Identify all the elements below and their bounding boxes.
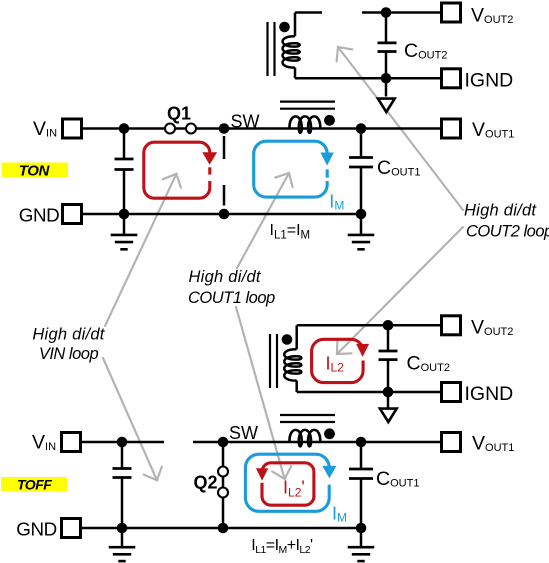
svg-text:SW: SW: [231, 112, 260, 132]
svg-text:COUT2 loop: COUT2 loop: [466, 223, 549, 241]
svg-text:VIN loop: VIN loop: [39, 345, 99, 363]
svg-text:TON: TON: [19, 162, 51, 179]
svg-text:IL1=IM+IL2': IL1=IM+IL2': [251, 537, 313, 556]
svg-text:SW: SW: [229, 423, 258, 443]
svg-text:VOUT1: VOUT1: [472, 433, 514, 455]
svg-text:GND: GND: [16, 519, 57, 540]
svg-text:High di/dt: High di/dt: [189, 268, 262, 286]
svg-text:VOUT2: VOUT2: [471, 5, 513, 27]
svg-text:VIN: VIN: [33, 118, 57, 140]
svg-text:High di/dt: High di/dt: [464, 201, 537, 219]
svg-text:IM: IM: [332, 503, 347, 524]
svg-text:VOUT2: VOUT2: [471, 317, 513, 339]
svg-text:GND: GND: [19, 205, 60, 226]
svg-text:IGND: IGND: [465, 383, 514, 405]
svg-text:Q2: Q2: [194, 473, 218, 493]
svg-text:Q1: Q1: [167, 104, 191, 124]
svg-text:VIN: VIN: [32, 432, 56, 454]
svg-text:IL2': IL2': [283, 478, 305, 500]
svg-text:IL2: IL2: [326, 354, 345, 375]
svg-text:IL1=IM: IL1=IM: [270, 222, 311, 241]
svg-text:VOUT1: VOUT1: [472, 119, 514, 141]
svg-text:IM: IM: [329, 191, 344, 212]
svg-text:IGND: IGND: [465, 70, 514, 92]
svg-text:COUT2: COUT2: [404, 40, 447, 62]
svg-text:TOFF: TOFF: [17, 476, 52, 492]
svg-text:COUT1: COUT1: [377, 157, 420, 179]
svg-text:COUT2: COUT2: [407, 353, 450, 375]
svg-text:COUT1: COUT1: [376, 468, 419, 490]
svg-text:High di/dt: High di/dt: [32, 326, 105, 344]
svg-text:COUT1 loop: COUT1 loop: [188, 289, 275, 307]
